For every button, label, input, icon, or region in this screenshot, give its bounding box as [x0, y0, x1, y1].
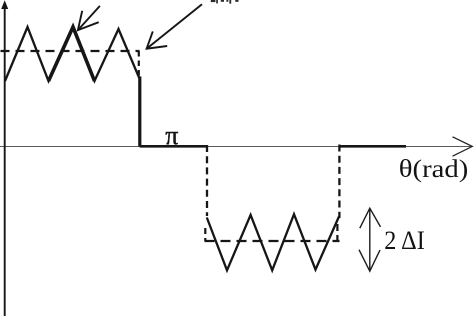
svg-text:θ(rad): θ(rad)	[399, 156, 469, 183]
svg-text:π: π	[165, 121, 178, 150]
svg-text:2 ΔI: 2 ΔI	[384, 226, 425, 255]
